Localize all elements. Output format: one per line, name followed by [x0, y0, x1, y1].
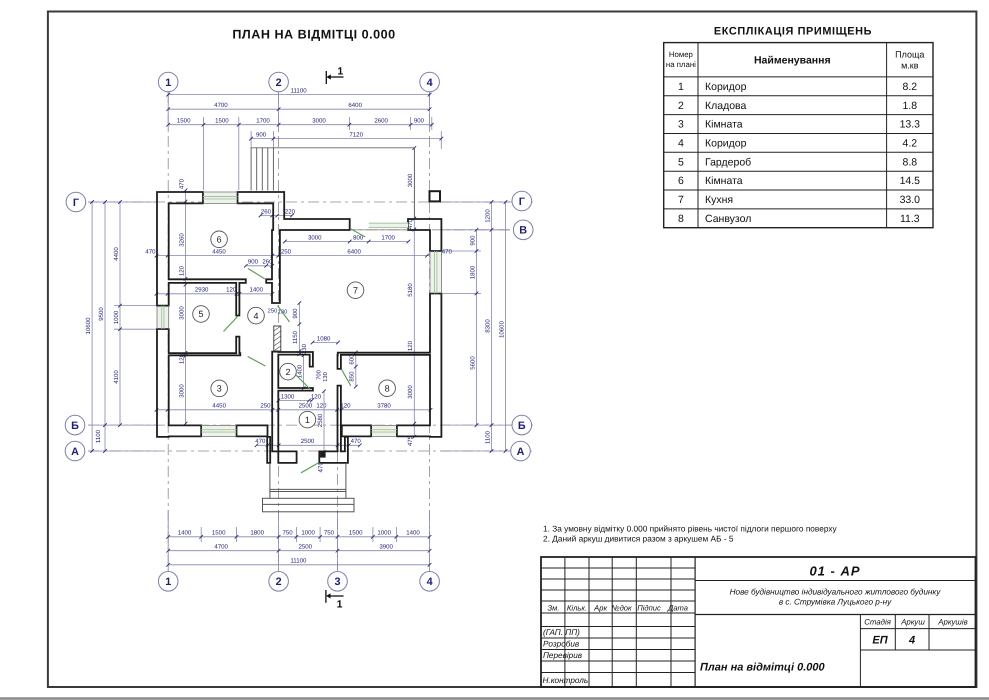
svg-text:1400: 1400: [406, 530, 420, 537]
svg-text:Зм.: Зм.: [548, 604, 560, 613]
svg-text:4: 4: [678, 138, 684, 150]
svg-text:900: 900: [414, 118, 425, 125]
svg-text:Площа: Площа: [895, 50, 924, 60]
axis line 1: [167, 92, 169, 571]
axis circle 3 bottom: [328, 572, 348, 592]
svg-text:В: В: [519, 225, 527, 237]
svg-text:Гардероб: Гардероб: [705, 156, 751, 168]
svg-text:11100: 11100: [291, 87, 308, 94]
svg-text:470: 470: [351, 438, 362, 445]
axis line А: [88, 450, 532, 452]
svg-text:Арк: Арк: [593, 604, 607, 613]
dim left inner chain: [185, 190, 187, 423]
svg-text:1080: 1080: [317, 335, 331, 342]
svg-text:Кладова: Кладова: [705, 100, 747, 112]
dim left 10600: [91, 202, 93, 451]
svg-text:900: 900: [469, 235, 476, 246]
svg-text:1700: 1700: [381, 234, 395, 241]
svg-text:01 - АР: 01 - АР: [809, 564, 860, 579]
dim bottom 4700/2500/3900: [168, 550, 429, 552]
svg-text:ЕП: ЕП: [872, 635, 888, 647]
svg-text:1800: 1800: [250, 530, 264, 537]
axis circle 4 bottom: [420, 572, 440, 592]
title block: [541, 557, 976, 687]
svg-text:Коридор: Коридор: [705, 81, 747, 93]
svg-text:на плані: на плані: [666, 60, 696, 69]
svg-text:11.3: 11.3: [900, 213, 920, 225]
door swing room2: [295, 374, 310, 389]
dim right 1200/8300/1100: [491, 202, 493, 451]
dim top 900/7120: [251, 138, 441, 140]
svg-text:1: 1: [337, 66, 343, 78]
room circle 2: [280, 363, 297, 380]
svg-text:1500: 1500: [212, 530, 226, 537]
svg-text:900: 900: [292, 308, 299, 319]
svg-text:4100: 4100: [113, 370, 120, 384]
svg-text:1000: 1000: [377, 530, 391, 537]
svg-text:4450: 4450: [212, 403, 226, 410]
svg-text:120: 120: [226, 287, 237, 294]
window W6 room7 terrace: [369, 222, 409, 228]
svg-text:Стадія: Стадія: [864, 618, 891, 627]
svg-text:1.8: 1.8: [902, 100, 917, 112]
svg-text:Кухня: Кухня: [705, 194, 733, 206]
svg-text:5: 5: [678, 156, 684, 168]
door swing room3: [248, 357, 266, 367]
svg-text:2: 2: [276, 576, 282, 588]
door swing room4 to room7: [278, 306, 290, 323]
svg-text:4: 4: [427, 576, 433, 588]
svg-text:(ГАП. ПП): (ГАП. ПП): [543, 628, 580, 637]
svg-text:Г: Г: [519, 196, 525, 208]
dim mid 470/4450/250/6400/470: [157, 255, 441, 257]
svg-text:4450: 4450: [212, 248, 226, 255]
svg-text:250: 250: [268, 308, 278, 315]
svg-text:1200: 1200: [484, 209, 491, 223]
room circle 4: [248, 307, 265, 324]
svg-text:14.5: 14.5: [900, 175, 921, 187]
dim room5 2930/120/1400: [157, 293, 273, 295]
svg-text:5600: 5600: [469, 356, 476, 370]
dim top 11100: [168, 94, 429, 96]
axis line 3: [337, 430, 339, 571]
bottom page edge strip: [0, 697, 989, 700]
svg-text:1: 1: [165, 576, 171, 588]
svg-text:220: 220: [285, 208, 296, 215]
dim room6 door 900/260: [246, 265, 272, 267]
axis circle 1 top: [158, 72, 178, 92]
dim 260/220 near axis2: [261, 215, 293, 217]
svg-text:2500: 2500: [299, 544, 313, 551]
dim room3 4450/250/2500/120/3780: [157, 409, 431, 411]
axis circle А left: [65, 441, 85, 461]
svg-text:1: 1: [337, 599, 343, 611]
axis circle Б right: [512, 415, 532, 435]
dim left 9500/1100: [104, 202, 106, 451]
axis line Б: [88, 424, 533, 426]
axis circle 4 top: [420, 72, 440, 92]
svg-text:7: 7: [678, 194, 684, 206]
svg-text:Кільк.: Кільк.: [567, 604, 587, 613]
axis line В: [300, 229, 535, 231]
room circle 7: [347, 282, 364, 299]
svg-text:2. Даний аркуш дивитися разом: 2. Даний аркуш дивитися разом з аркушем …: [543, 534, 734, 544]
entrance porch steps: [269, 463, 271, 498]
svg-text:8: 8: [678, 213, 684, 225]
window W2 right room7: [430, 252, 441, 293]
svg-text:33.0: 33.0: [900, 194, 921, 206]
svg-text:4700: 4700: [214, 102, 228, 109]
door swing room5: [224, 316, 239, 332]
dim top detail chain: [168, 124, 432, 126]
svg-text:2600: 2600: [374, 118, 388, 125]
svg-text:А: А: [71, 446, 79, 458]
svg-text:470: 470: [442, 248, 453, 255]
svg-text:750: 750: [324, 530, 335, 537]
svg-text:120: 120: [311, 393, 322, 400]
svg-text:750: 750: [283, 530, 294, 537]
svg-text:4400: 4400: [113, 247, 120, 261]
svg-text:1: 1: [305, 415, 310, 425]
svg-text:1400: 1400: [178, 530, 192, 537]
svg-text:1. За умовну відмітку 0.000 п: 1. За умовну відмітку 0.000 прийнято рів…: [543, 524, 838, 534]
svg-text:3900: 3900: [379, 544, 393, 551]
window W5 left room5: [157, 307, 169, 329]
svg-text:1500: 1500: [349, 530, 363, 537]
svg-text:900: 900: [248, 259, 259, 266]
axis circle В right: [513, 220, 533, 240]
svg-text:2500: 2500: [301, 438, 315, 445]
svg-text:3780: 3780: [377, 403, 391, 410]
svg-text:А: А: [517, 446, 525, 458]
svg-text:м.кв: м.кв: [901, 61, 919, 71]
svg-text:10600: 10600: [498, 320, 505, 338]
svg-text:13.3: 13.3: [900, 119, 921, 131]
svg-text:№док: №док: [611, 604, 632, 613]
svg-text:1500: 1500: [215, 118, 229, 125]
svg-text:8.2: 8.2: [902, 81, 917, 93]
svg-text:4: 4: [427, 77, 433, 89]
svg-text:8300: 8300: [484, 319, 491, 333]
svg-text:850: 850: [349, 371, 356, 382]
dim room1 height 2580: [323, 391, 325, 452]
svg-text:7: 7: [353, 285, 358, 295]
vent shaft hatched: [274, 326, 281, 351]
svg-text:Аркуш: Аркуш: [900, 618, 925, 627]
svg-text:3000: 3000: [407, 173, 414, 187]
svg-text:7120: 7120: [349, 131, 363, 138]
svg-text:2: 2: [276, 77, 282, 89]
svg-text:1500: 1500: [177, 118, 191, 125]
svg-text:1100: 1100: [95, 429, 102, 443]
dim right 900/1800/5600: [476, 230, 478, 425]
svg-text:2500: 2500: [299, 403, 313, 410]
svg-text:1400: 1400: [250, 287, 264, 294]
axis circle 2 top: [269, 72, 289, 92]
room circle 6: [211, 231, 228, 248]
axis line 2: [278, 92, 280, 571]
svg-text:4: 4: [253, 311, 258, 321]
svg-text:120: 120: [407, 340, 414, 351]
svg-text:Н.контроль: Н.контроль: [543, 676, 589, 685]
svg-text:ЕКСПЛІКАЦІЯ ПРИМІЩЕНЬ: ЕКСПЛІКАЦІЯ ПРИМІЩЕНЬ: [714, 26, 872, 38]
svg-text:700: 700: [316, 370, 323, 380]
terrace outline and entrance stairs: [251, 147, 414, 149]
dim right inner chain: [413, 148, 415, 437]
svg-text:8.8: 8.8: [902, 156, 917, 168]
axis circle 1 bottom: [158, 572, 178, 592]
svg-text:11100: 11100: [290, 558, 307, 565]
svg-text:2930: 2930: [195, 287, 209, 294]
svg-text:9500: 9500: [98, 307, 105, 321]
svg-text:Б: Б: [518, 420, 526, 432]
svg-text:1800: 1800: [469, 265, 476, 279]
door swing room6: [248, 269, 265, 279]
svg-text:470: 470: [145, 248, 156, 255]
svg-text:120: 120: [316, 403, 327, 410]
room circle 1: [299, 411, 316, 428]
svg-text:Кімната: Кімната: [705, 119, 743, 131]
svg-text:120: 120: [340, 403, 351, 410]
axis line 4: [429, 92, 431, 571]
svg-text:Г: Г: [73, 197, 79, 209]
svg-text:3000: 3000: [178, 384, 185, 398]
svg-text:Санвузол: Санвузол: [705, 213, 751, 225]
svg-text:2: 2: [678, 100, 684, 112]
svg-text:250: 250: [260, 403, 271, 410]
window W1 top room6: [204, 192, 237, 203]
svg-text:1: 1: [678, 81, 684, 93]
svg-text:Б: Б: [71, 420, 79, 432]
svg-text:2580: 2580: [317, 413, 324, 427]
svg-text:Коридор: Коридор: [705, 138, 747, 150]
dim room7 3000/800/1700: [285, 241, 409, 243]
svg-text:3000: 3000: [308, 234, 322, 241]
dim bottom detail chain: [168, 536, 429, 538]
svg-text:1000: 1000: [301, 530, 315, 537]
door swing entrance: [301, 463, 319, 473]
svg-text:5: 5: [198, 309, 203, 319]
svg-text:3000: 3000: [407, 385, 414, 399]
svg-text:6400: 6400: [347, 248, 361, 255]
door swing room7 terrace: [350, 229, 365, 237]
axis line Г: [88, 201, 533, 203]
svg-text:Кімната: Кімната: [705, 175, 743, 187]
axis circle Г left: [66, 192, 86, 212]
svg-text:Аркушів: Аркушів: [937, 618, 967, 627]
svg-text:8: 8: [385, 383, 390, 393]
svg-text:470: 470: [255, 438, 266, 445]
svg-text:Дата: Дата: [667, 604, 688, 613]
svg-text:130: 130: [322, 372, 329, 382]
axis circle Г right: [512, 191, 532, 211]
svg-text:1000: 1000: [113, 310, 120, 324]
svg-text:Перевірив: Перевірив: [543, 651, 583, 660]
svg-text:Номер: Номер: [669, 50, 694, 59]
svg-text:1700: 1700: [256, 118, 270, 125]
svg-text:4: 4: [908, 635, 915, 647]
window W4 bottom room3: [202, 425, 236, 436]
svg-text:470: 470: [178, 178, 185, 189]
dim room2 height 1400: [303, 355, 305, 388]
dim room4 vertical 900/1150/130: [298, 303, 300, 354]
section mark top: [327, 74, 331, 79]
dim left 4400/1000/4100: [119, 202, 121, 425]
svg-text:6400: 6400: [348, 102, 362, 109]
svg-text:250: 250: [281, 248, 292, 255]
window W3 bottom room8: [372, 425, 396, 436]
svg-text:120: 120: [178, 265, 185, 276]
svg-text:3260: 3260: [178, 233, 185, 247]
axis circle А right: [511, 441, 531, 461]
svg-text:Найменування: Найменування: [754, 55, 831, 67]
dim room2 1300/120: [278, 400, 312, 402]
svg-text:900: 900: [256, 131, 267, 138]
svg-text:1: 1: [165, 77, 171, 89]
dim bottom 11100: [168, 564, 429, 566]
svg-text:4.2: 4.2: [902, 138, 917, 150]
svg-text:1300: 1300: [281, 393, 295, 400]
room circle 8: [379, 380, 396, 397]
dim right 10600: [505, 202, 507, 451]
svg-text:5180: 5180: [407, 283, 414, 297]
svg-text:3000: 3000: [178, 306, 185, 320]
svg-text:6: 6: [678, 175, 684, 187]
svg-text:3: 3: [678, 119, 684, 131]
room circle 3: [211, 380, 228, 397]
dim top 4700/6400: [168, 108, 429, 110]
svg-text:4700: 4700: [214, 544, 228, 551]
svg-text:Нове будівництво індивідуально: Нове будівництво індивідуального житлово…: [730, 588, 942, 597]
section mark bottom: [326, 593, 330, 598]
svg-text:3: 3: [217, 384, 222, 394]
svg-text:в с. Струмівка Луцького р-ну: в с. Струмівка Луцького р-ну: [779, 598, 892, 607]
svg-text:ПЛАН НА ВІДМІТЦІ 0.000: ПЛАН НА ВІДМІТЦІ 0.000: [232, 28, 395, 42]
door swing room8: [342, 370, 351, 386]
svg-text:3000: 3000: [312, 118, 326, 125]
dimension extension lines: [167, 92, 169, 130]
svg-text:1150: 1150: [292, 330, 299, 344]
dim room1 470/2500/470: [257, 444, 360, 446]
svg-text:260: 260: [261, 208, 272, 215]
svg-text:План на відмітці 0.000: План на відмітці 0.000: [700, 662, 825, 674]
svg-text:2: 2: [285, 367, 290, 377]
svg-text:10600: 10600: [85, 317, 92, 335]
svg-text:Розробив: Розробив: [543, 640, 580, 649]
room circle 5: [193, 306, 210, 323]
svg-text:1100: 1100: [484, 430, 491, 444]
axis circle Б left: [65, 415, 85, 435]
axis circle 2 bottom: [269, 572, 289, 592]
svg-text:Підпис: Підпис: [637, 604, 661, 613]
svg-text:6: 6: [217, 235, 222, 245]
walls: [157, 192, 246, 316]
dim room8 vertical 600/850: [355, 353, 357, 387]
svg-text:3: 3: [334, 576, 340, 588]
dim 1080 passage: [313, 342, 338, 344]
